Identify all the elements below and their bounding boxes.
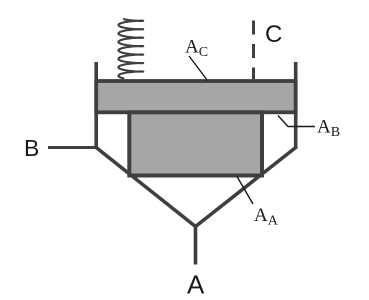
spring: [118, 19, 143, 78]
left valve-seat diagonal: [96, 148, 195, 227]
svg-text:AA: AA: [254, 205, 279, 229]
port B stub line: [48, 146, 96, 149]
svg-text:B: B: [24, 135, 39, 161]
right valve-seat diagonal: [196, 148, 296, 227]
right wall: [294, 62, 298, 149]
svg-text:AC: AC: [185, 37, 208, 61]
svg-text:A: A: [187, 270, 205, 300]
top plate (area A_C): [96, 81, 296, 112]
leader line to A_C: [189, 56, 208, 81]
control rod C (dashed): [252, 21, 255, 80]
svg-text:AB: AB: [317, 117, 340, 141]
piston body (areas A_B / A_A): [129, 112, 262, 175]
port A stem line: [194, 225, 198, 265]
left wall: [94, 62, 98, 149]
svg-text:C: C: [265, 21, 282, 48]
leader line to A_B: [278, 116, 315, 127]
leader line to A_A: [237, 177, 253, 205]
